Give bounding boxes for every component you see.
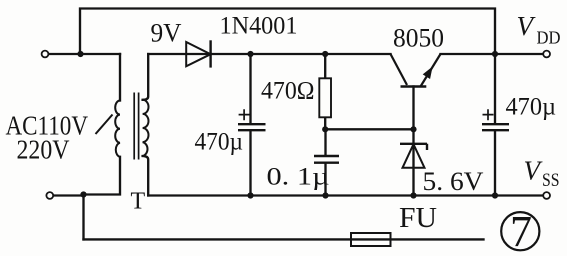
transformer T primary coil (115, 101, 120, 157)
transistor Q1 8050 (391, 54, 441, 87)
svg-text:1N4001: 1N4001 (220, 13, 298, 40)
wire top rail with end drops (80, 9, 495, 55)
wire secondary top lead (143, 54, 149, 100)
capacitor C2 0.1u plates (314, 156, 339, 163)
wire base lead (412, 87, 414, 130)
wire zener top lead (412, 129, 414, 195)
wire VDD node to terminal (495, 53, 543, 55)
wire primary bottom lead (84, 157, 120, 195)
wire C2 top lead (324, 129, 326, 155)
wire R1 top lead (324, 54, 326, 78)
terminal lower AC (46, 192, 53, 199)
node junction C1 VSS (247, 192, 253, 198)
wire C1 bottom lead (249, 131, 251, 196)
node junction zener VSS (410, 192, 416, 198)
svg-text:SS: SS (542, 170, 560, 191)
wire bottom fuse rail (84, 238, 484, 240)
wire secondary bottom lead (143, 156, 149, 196)
svg-text:9V: 9V (151, 19, 182, 48)
node junction base (410, 126, 416, 132)
node junction upper-left (77, 51, 83, 57)
svg-text:T: T (131, 189, 146, 215)
wire VSS rail (148, 194, 543, 196)
node junction diode-C1 (247, 51, 253, 57)
capacitor C3 470u plus sign (483, 109, 494, 120)
wire C2 bottom lead (324, 163, 326, 196)
svg-text:220V: 220V (17, 135, 70, 165)
wire drop to primary (119, 54, 121, 101)
wire main top from secondary to diode (148, 53, 210, 55)
wire emitter to VDD (441, 53, 496, 55)
wire C1 top lead (249, 54, 251, 124)
svg-text:470µ: 470µ (195, 129, 244, 156)
wire C3 bottom lead (494, 131, 496, 196)
terminal VSS (543, 192, 550, 199)
wire diode to transistor (211, 53, 391, 55)
wire C3 top drop from VDD node (494, 54, 496, 124)
resistor R1 470ohm (319, 78, 331, 117)
svg-text:7: 7 (510, 207, 532, 256)
node junction R1 bottom (322, 126, 328, 132)
svg-text:5. 6V: 5. 6V (423, 167, 484, 196)
node junction VDD (492, 51, 498, 57)
capacitor C1 470u plates (238, 124, 266, 130)
svg-text:8050: 8050 (393, 24, 444, 53)
node junction R1 top (322, 51, 328, 57)
svg-text:V: V (517, 11, 537, 41)
circled figure number 7 (501, 212, 539, 250)
svg-text:470Ω: 470Ω (261, 78, 315, 105)
svg-text:V: V (524, 156, 544, 186)
node junction C3 VSS (492, 192, 498, 198)
svg-text:FU: FU (399, 203, 437, 234)
svg-text:470µ: 470µ (506, 94, 557, 121)
zener diode DZ 5.6V (400, 144, 427, 168)
terminal upper AC (42, 51, 49, 58)
wire left drop to fuse rail (82, 195, 84, 240)
capacitor C3 470u plates (482, 124, 509, 130)
capacitor C1 470u plus sign (239, 109, 250, 120)
wire upper AC lead (48, 53, 120, 55)
diode D1 1N4001 (186, 42, 210, 66)
node junction C2 VSS (322, 192, 328, 198)
wire R1 to base node (325, 128, 413, 130)
fuse FU (351, 233, 391, 246)
wire R1 bottom lead (324, 117, 326, 129)
node junction lower-left (80, 191, 86, 197)
transformer T secondary coil (143, 100, 149, 156)
transformer T core (134, 93, 138, 160)
svg-text:0. 1µ: 0. 1µ (267, 164, 330, 191)
wire lower AC lead (53, 194, 84, 196)
svg-text:DD: DD (537, 28, 561, 48)
terminal VDD (543, 51, 550, 58)
